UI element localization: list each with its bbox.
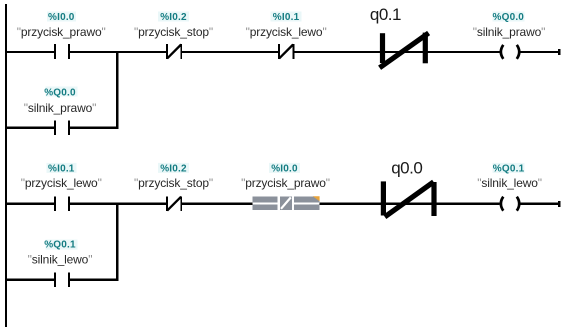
svg-text:"silnik_lewo": "silnik_lewo": [477, 176, 542, 190]
svg-text:"silnik_lewo": "silnik_lewo": [28, 252, 93, 266]
svg-text:"silnik_prawo": "silnik_prawo": [24, 101, 96, 115]
svg-text:%Q0.0: %Q0.0: [44, 88, 76, 99]
svg-text:%Q0.1: %Q0.1: [493, 164, 525, 175]
svg-text:"przycisk_prawo": "przycisk_prawo": [241, 176, 330, 190]
svg-text:%I0.2: %I0.2: [160, 164, 187, 175]
svg-text:%I0.0: %I0.0: [271, 164, 298, 175]
svg-text:"przycisk_stop": "przycisk_stop": [134, 25, 213, 39]
svg-text:%Q0.1: %Q0.1: [44, 240, 76, 251]
svg-text:"przycisk_stop": "przycisk_stop": [134, 176, 213, 190]
svg-text:%I0.1: %I0.1: [273, 12, 300, 23]
svg-text:"przycisk_lewo": "przycisk_lewo": [246, 25, 327, 39]
svg-text:%Q0.0: %Q0.0: [493, 12, 525, 23]
svg-text:q0.0: q0.0: [391, 159, 422, 178]
svg-text:q0.1: q0.1: [370, 5, 401, 24]
svg-text:"silnik_prawo": "silnik_prawo": [473, 25, 545, 39]
svg-text:"przycisk_lewo": "przycisk_lewo": [21, 176, 102, 190]
svg-text:%I0.1: %I0.1: [48, 164, 75, 175]
svg-text:%I0.2: %I0.2: [160, 12, 187, 23]
svg-text:%I0.0: %I0.0: [48, 12, 75, 23]
svg-text:"przycisk_prawo": "przycisk_prawo": [17, 25, 106, 39]
